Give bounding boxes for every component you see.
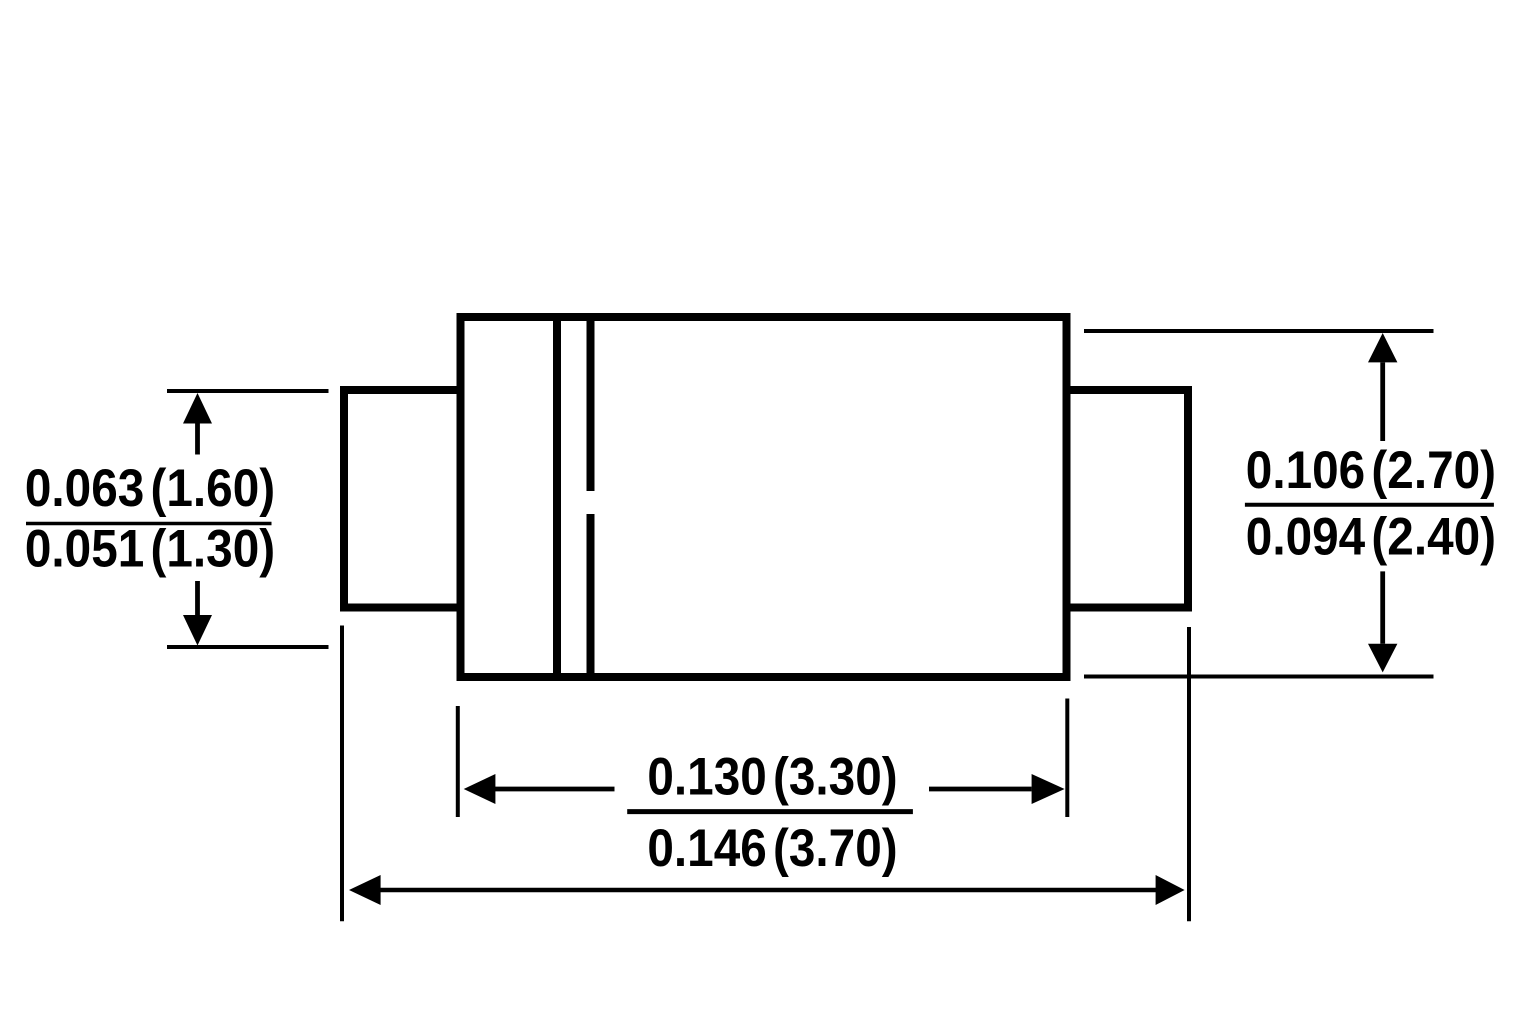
left dimension top extension line [167, 389, 329, 393]
bottom outer dimension right extension line [1187, 627, 1191, 921]
left terminal lead [344, 390, 461, 608]
cathode band line 2 lower segment [587, 514, 595, 677]
left dimension bottom extension line [167, 645, 329, 649]
left dimension fraction bar [26, 522, 272, 526]
right dimension down arrow [1380, 571, 1385, 643]
right terminal lead [1067, 390, 1189, 608]
package body outline [461, 317, 1067, 677]
right dimension bottom extension line [1084, 675, 1434, 679]
svg-text:0.094(2.40): 0.094(2.40) [1246, 506, 1496, 566]
bottom inner dimension right arrow [929, 787, 1032, 792]
bottom dimension fraction bar [627, 809, 913, 814]
bottom inner dimension left tick [456, 706, 460, 817]
bottom outer dimension left extension line [340, 626, 344, 922]
svg-text:0.146(3.70): 0.146(3.70) [647, 818, 897, 878]
svg-text:0.051(1.30): 0.051(1.30) [25, 518, 275, 578]
svg-text:0.106(2.70): 0.106(2.70) [1246, 439, 1496, 499]
right dimension top extension line [1084, 329, 1434, 333]
bottom inner dimension left arrow [464, 774, 496, 804]
left dimension down arrow [195, 581, 200, 615]
cathode band line 2 upper segment [587, 317, 595, 491]
right dimension fraction bar [1245, 503, 1494, 507]
bottom inner dimension right tick [1065, 699, 1069, 818]
svg-text:0.130(3.30): 0.130(3.30) [647, 746, 897, 806]
cathode band line 1 [553, 317, 561, 677]
svg-text:0.063(1.60): 0.063(1.60) [25, 458, 275, 518]
left dimension up arrow [183, 393, 212, 424]
bottom outer dimension line with arrows [349, 875, 381, 905]
right dimension up arrow [1368, 333, 1397, 362]
